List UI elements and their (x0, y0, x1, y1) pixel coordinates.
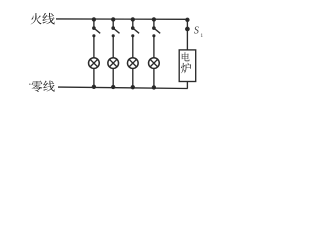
electric furnace box (电炉) (179, 50, 196, 82)
wire: live bus corner down to switch S1 (186, 19, 188, 29)
wire: lamp 2 to neutral bus (112, 68, 114, 87)
switch (open) branch 3: blade (133, 28, 139, 33)
switch (open) branch 2: pivot dot (112, 27, 114, 29)
wire: lamp 4 to neutral bus (153, 68, 155, 88)
wire: switch 1 upper stub (93, 19, 95, 27)
switch (open) branch 1: pivot dot (93, 27, 95, 29)
wire: lamp 1 to neutral bus (93, 68, 95, 87)
lamp L4: circle (149, 58, 160, 69)
wire: switch 2 to lamp 2 (112, 35, 114, 57)
node: junction dot, branch 4 to live bus (152, 18, 155, 21)
wire: switch S1 to furnace box top (186, 29, 188, 50)
svg-text:S: S (194, 26, 199, 37)
node: junction dot, branch 1 to neutral bus (92, 85, 95, 88)
speck artifact left of 零线 (29, 83, 31, 85)
switch (open) branch 4: pivot dot (153, 27, 155, 29)
node: corner dot, live bus to switch S1 (186, 18, 189, 21)
label 炉 of 电炉 (electric furnace) (181, 63, 191, 74)
lamp L3: X cross (129, 59, 137, 67)
node: junction dot, branch 2 to neutral bus (112, 86, 115, 89)
node: junction dot, branch 4 to neutral bus (152, 86, 155, 89)
wire: switch 4 to lamp 4 (153, 35, 155, 57)
lamp L3: circle (127, 58, 138, 69)
label 火 of 火线 (live wire) (31, 13, 42, 24)
lamp L2: X cross (109, 59, 117, 67)
label 线 of 火线 (live wire) (42, 13, 54, 25)
wire: neutral (零线) bottom bus (58, 87, 188, 88)
svg-text:1: 1 (200, 33, 203, 39)
wire: switch 4 upper stub (153, 19, 155, 27)
switch (open) branch 3: pivot dot (132, 27, 134, 29)
switch (open) branch 1: lower terminal dot (93, 35, 95, 37)
switch (open) branch 3: lower terminal dot (132, 35, 134, 37)
wire: switch 3 to lamp 3 (132, 35, 134, 57)
node: junction dot, branch 3 to live bus (131, 18, 134, 21)
wire: lamp 3 to neutral bus (132, 68, 134, 87)
node: junction dot, branch 2 to live bus (112, 18, 115, 21)
switch (open) branch 4: blade (154, 28, 160, 33)
lamp L2: circle (108, 58, 119, 69)
wire: switch 2 upper stub (112, 19, 114, 27)
switch (open) branch 1: blade (94, 28, 100, 33)
label 线 of 零线 (neutral wire) (43, 81, 54, 92)
node: junction dot, branch 3 to neutral bus (131, 86, 134, 89)
lamp L4: X cross (150, 59, 158, 67)
wire: live (火线) top bus (56, 18, 188, 20)
node: junction dot, branch 1 to live bus (92, 18, 95, 21)
wire: switch 3 upper stub (132, 19, 134, 27)
switch (open) branch 2: lower terminal dot (112, 35, 114, 37)
lamp L1: X cross (90, 59, 98, 67)
switch (open) branch 4: lower terminal dot (153, 35, 155, 37)
wire: switch 1 to lamp 1 (93, 35, 95, 57)
switch (open) branch 2: blade (113, 28, 119, 33)
wire: furnace box bottom to neutral bus (186, 82, 188, 89)
lamp L1: circle (89, 58, 100, 69)
switch S1 (closed): pivot dot (186, 27, 189, 30)
label 电 of 电炉 (electric furnace) (182, 52, 190, 61)
label 零 of 零线 (neutral wire) (32, 81, 43, 92)
